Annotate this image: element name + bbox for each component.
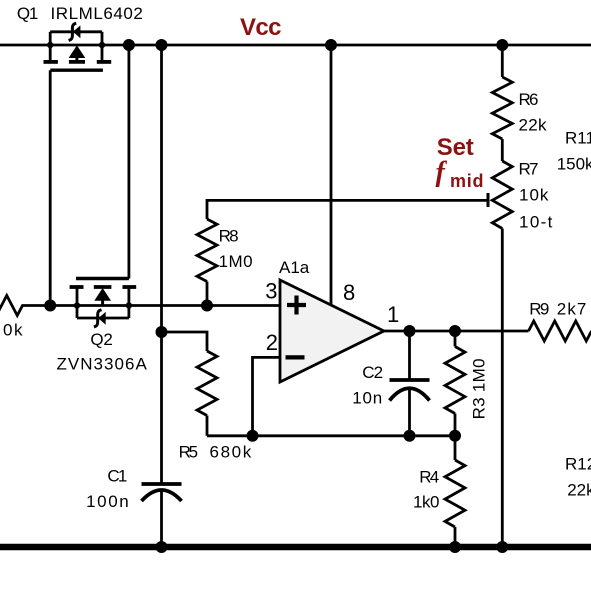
- transistor Q2 (ZVN3306A N-MOSFET): [70, 279, 137, 319]
- wire: R8 bottom lead: [206, 282, 209, 306]
- wire: Vcc down to op-amp pin 8: [330, 45, 333, 306]
- svg-text:1: 1: [387, 302, 399, 327]
- junction: Vcc / R6 branch: [496, 39, 508, 51]
- svg-text:2: 2: [266, 330, 278, 355]
- minus symbol inside op-amp: [286, 355, 305, 359]
- junction: Q1 gate node: [44, 300, 56, 312]
- svg-text:ZVN3306A: ZVN3306A: [57, 354, 148, 373]
- svg-text:R9: R9: [529, 299, 549, 318]
- svg-text:A1a: A1a: [279, 258, 310, 277]
- junction: Vcc / C1 branch: [156, 39, 168, 51]
- svg-text:150k: 150k: [557, 155, 591, 174]
- potentiometer R7: [492, 161, 512, 229]
- svg-text:Q1: Q1: [17, 4, 39, 23]
- svg-text:R11: R11: [565, 129, 591, 148]
- wire: ground rail (thick): [0, 544, 591, 551]
- svg-text:R7: R7: [519, 160, 539, 179]
- resistor R3: [445, 331, 465, 436]
- capacitor C1: [142, 484, 182, 547]
- svg-text:8: 8: [343, 280, 355, 305]
- svg-text:10-t: 10-t: [519, 213, 553, 232]
- wire: R5 bottom lead: [206, 416, 209, 436]
- body diode of Q2: [94, 310, 106, 327]
- svg-text:C2: C2: [362, 363, 383, 382]
- wire: R6 to R7: [501, 139, 504, 161]
- svg-text:Vcc: Vcc: [240, 14, 282, 41]
- capacitor C2: [390, 331, 430, 436]
- svg-text:3: 3: [265, 279, 277, 304]
- svg-text:Q2: Q2: [90, 330, 113, 349]
- junction: Q1 source on Vcc: [47, 42, 53, 48]
- transistor Q1 (IRLML6402 P-MOSFET): [44, 32, 112, 70]
- wiper tick of R7: [487, 193, 490, 207]
- wire: Vcc down to R6: [501, 45, 504, 77]
- wire: lower feedback rail: [207, 434, 455, 437]
- junction: R4 / ground: [449, 541, 461, 553]
- svg-text:R12: R12: [565, 455, 591, 474]
- svg-text:10n: 10n: [352, 388, 382, 407]
- junction: Q1 drain on Vcc: [99, 42, 105, 48]
- resistor R9: [529, 321, 591, 341]
- junction: Vcc line / R5 branch: [156, 326, 168, 338]
- junction: C1 / ground: [156, 541, 168, 553]
- junction: C2 / lower rail: [404, 430, 416, 442]
- junction: Vcc / pin 8 wire: [325, 39, 337, 51]
- junction: Q2 source: [74, 302, 80, 308]
- plus symbol inside op-amp: [287, 296, 306, 315]
- junction: Q2 drain: [126, 302, 132, 308]
- wire: R8 top / wiper wire: [207, 200, 488, 219]
- junction: R3-R4 node: [449, 430, 461, 442]
- svg-text:1k0: 1k0: [413, 493, 440, 512]
- wire: R5 branch from Vcc line: [162, 332, 208, 351]
- svg-text:IRLML6402: IRLML6402: [51, 4, 143, 23]
- wire: non-inverting input row: [50, 304, 280, 307]
- resistor (partial, left edge) value 0k: [0, 296, 50, 316]
- resistor R8: [197, 219, 217, 282]
- resistor R6: [492, 77, 512, 139]
- wire: inverting input lead: [253, 357, 281, 435]
- wire: Vcc down to C1 and R5 node: [160, 45, 163, 484]
- svg-text:C1: C1: [107, 466, 127, 485]
- junction: R7 / ground: [496, 541, 508, 553]
- wire: Vcc down to Q2 gate: [127, 45, 130, 279]
- resistor R4: [445, 436, 465, 547]
- wire: Vcc rail: [0, 44, 591, 47]
- svg-text:R3 1M0: R3 1M0: [470, 358, 489, 419]
- junction: R8 bottom on input row: [201, 300, 213, 312]
- svg-text:100n: 100n: [86, 492, 129, 511]
- svg-text:2k7: 2k7: [557, 299, 587, 318]
- svg-text:R8: R8: [219, 226, 239, 245]
- svg-text:mid: mid: [450, 171, 484, 191]
- svg-text:22k: 22k: [567, 481, 591, 500]
- body diode of Q1: [69, 23, 81, 40]
- wire: R7 bottom down to ground rail: [501, 229, 504, 548]
- svg-text:R4: R4: [419, 468, 439, 487]
- junction: inverting input / lower rail: [247, 430, 259, 442]
- wire: Q1 gate down to input row: [49, 70, 52, 305]
- svg-text:1M0: 1M0: [219, 252, 253, 271]
- svg-text:10k: 10k: [519, 186, 549, 205]
- svg-text:R5: R5: [179, 442, 199, 461]
- junction: output / R3: [449, 325, 461, 337]
- op-amp A1a: [280, 280, 384, 382]
- junction: output / C2: [404, 325, 416, 337]
- svg-text:22k: 22k: [519, 116, 548, 135]
- resistor R5: [197, 351, 217, 416]
- svg-text:R6: R6: [519, 90, 539, 109]
- junction: Vcc / Q2 gate wire: [123, 39, 135, 51]
- wire: output row: [384, 330, 529, 333]
